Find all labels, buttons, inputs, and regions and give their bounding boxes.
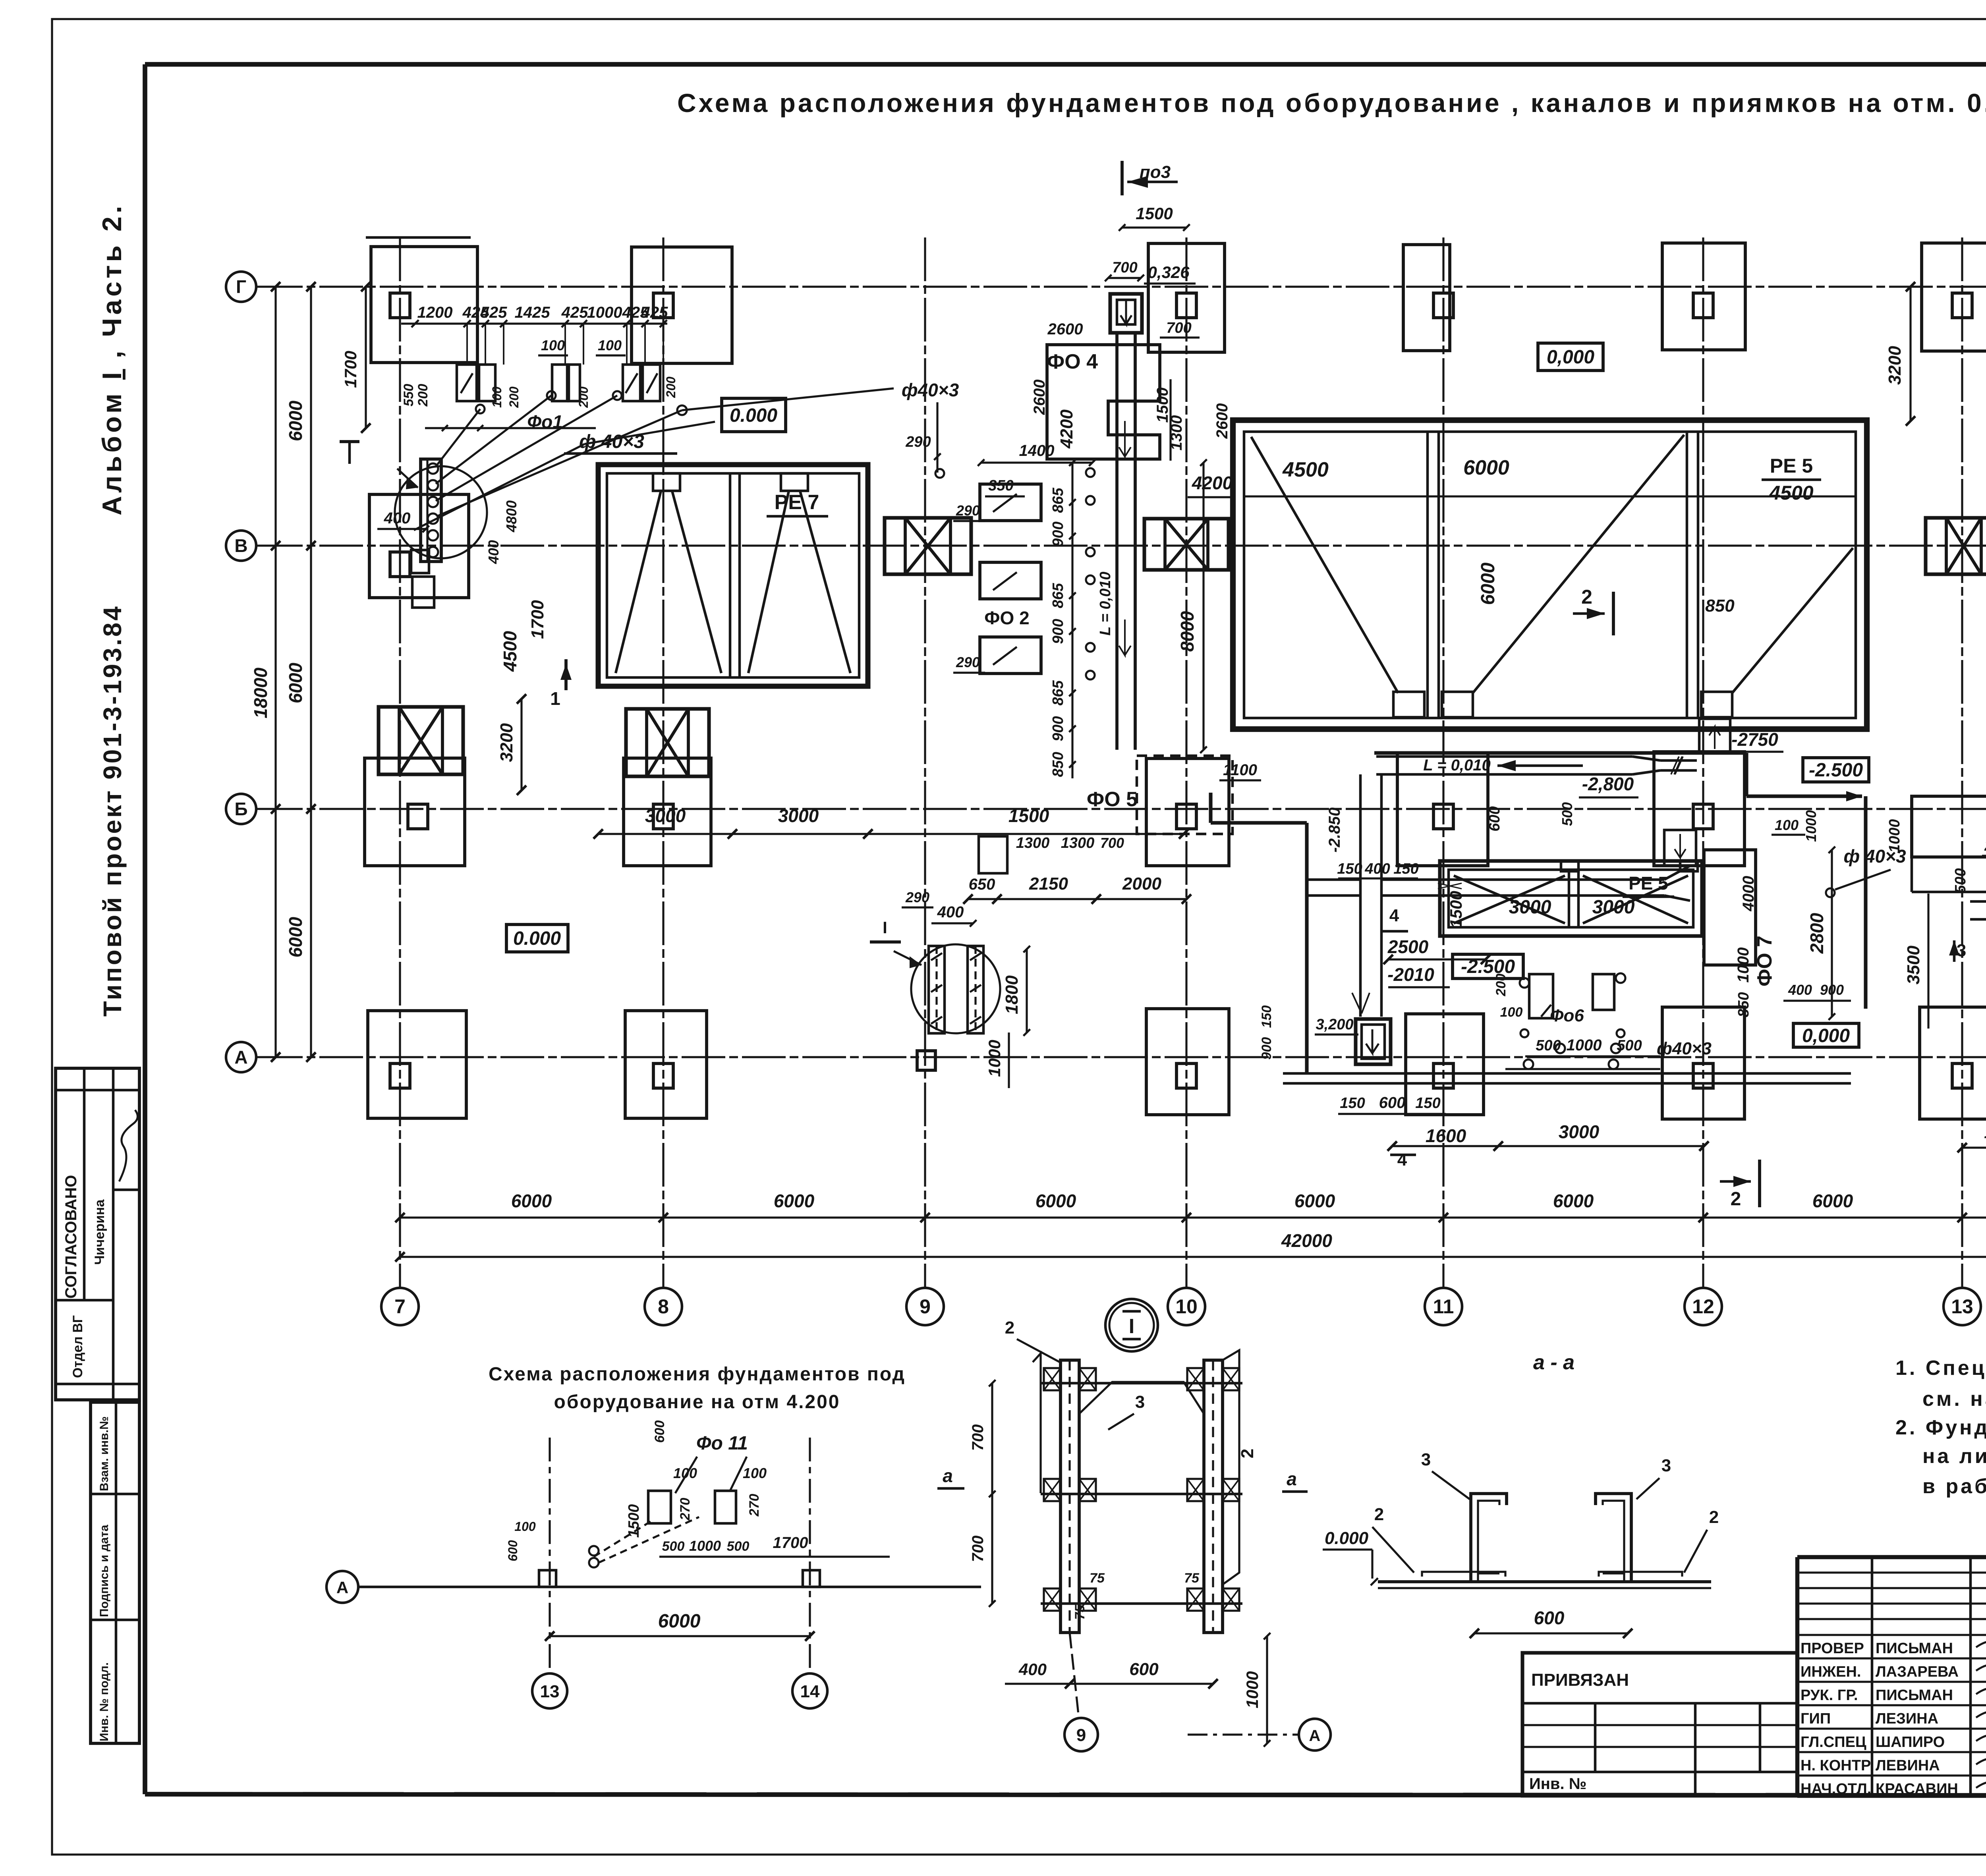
svg-text:0,326: 0,326 <box>1148 263 1190 282</box>
svg-text:I: I <box>1129 1315 1134 1338</box>
svg-text:2500: 2500 <box>1387 936 1429 957</box>
svg-text:6000: 6000 <box>658 1611 701 1632</box>
svg-text:1500: 1500 <box>1008 805 1049 826</box>
a-a dim 600 <box>1474 1632 1628 1634</box>
pit bottom double line <box>1283 1072 1851 1075</box>
svg-text:4200: 4200 <box>1057 409 1076 449</box>
column footprint Б11 <box>1397 753 1488 866</box>
detail bolts <box>589 1546 599 1556</box>
svg-text:900: 900 <box>1050 521 1066 546</box>
svg-text:270: 270 <box>678 1498 693 1521</box>
svg-text:L = 0,010: L = 0,010 <box>1097 572 1114 636</box>
svg-text:ПИСЬМАН: ПИСЬМАН <box>1876 1640 1953 1657</box>
svg-text:270: 270 <box>747 1494 762 1517</box>
svg-text:А: А <box>336 1578 348 1597</box>
svg-text:700: 700 <box>1112 259 1137 276</box>
svg-text:100: 100 <box>673 1465 697 1481</box>
svg-text:75: 75 <box>1184 1571 1200 1586</box>
svg-text:3: 3 <box>1957 941 1966 960</box>
svg-text:150: 150 <box>1259 1006 1274 1028</box>
column footprint Г8 <box>632 247 732 363</box>
svg-text:2: 2 <box>1374 1505 1384 1524</box>
grid line 11 <box>1442 237 1444 1287</box>
dim row 1200-425 cluster <box>401 322 667 324</box>
dim 1400 mid <box>981 461 1092 463</box>
inner frame left <box>143 64 147 1794</box>
svg-text:1000: 1000 <box>689 1538 721 1554</box>
svg-text:0.000: 0.000 <box>513 928 561 949</box>
section bubble 9 <box>1064 1718 1098 1751</box>
Фо5 dashed box <box>1137 756 1233 834</box>
svg-text:500: 500 <box>662 1539 685 1554</box>
grid line 9 <box>924 237 926 1287</box>
svg-text:100: 100 <box>598 337 622 353</box>
svg-text:СОГЛАСОВАНО: СОГЛАСОВАНО <box>62 1175 80 1299</box>
svg-text:Фо6: Фо6 <box>1550 1006 1584 1025</box>
Фо6 pedestal a <box>1529 974 1553 1018</box>
svg-text:Чичерина: Чичерина <box>92 1199 107 1265</box>
dim 3000 3000 1500 under РЕ7 <box>598 833 1184 835</box>
svg-text:1500: 1500 <box>626 1504 642 1538</box>
svg-text:РЕ 5: РЕ 5 <box>1770 455 1813 477</box>
svg-text:100: 100 <box>514 1519 536 1534</box>
svg-text:Альбом I , Часть 2.: Альбом I , Часть 2. <box>97 203 127 515</box>
sump box <box>1356 1019 1391 1064</box>
svg-text:900: 900 <box>1259 1037 1274 1060</box>
detail circle bars <box>911 944 1000 1033</box>
svg-text:500: 500 <box>1559 802 1575 826</box>
svg-text:РУК. ГР.: РУК. ГР. <box>1801 1687 1858 1704</box>
svg-text:3: 3 <box>1135 1392 1145 1412</box>
svg-text:7: 7 <box>394 1295 406 1318</box>
detail bubble 14 <box>792 1673 827 1708</box>
svg-text:3000: 3000 <box>778 805 819 826</box>
svg-text:ЛАЗАРЕВА: ЛАЗАРЕВА <box>1876 1664 1959 1680</box>
svg-text:850: 850 <box>1735 992 1752 1017</box>
svg-text:100: 100 <box>541 337 565 353</box>
svg-text:290: 290 <box>956 654 980 670</box>
section columns <box>1061 1360 1079 1633</box>
grid line В <box>259 544 1986 546</box>
svg-text:1700: 1700 <box>341 351 360 388</box>
svg-text:4500: 4500 <box>500 631 520 672</box>
svg-text:Схема расположения фундамен: Схема расположения фундаментов под обору… <box>677 88 1986 118</box>
channel sump connector <box>1307 878 1360 881</box>
svg-text:3000: 3000 <box>1592 897 1635 918</box>
pit wall top step <box>1211 821 1307 824</box>
svg-text:0,000: 0,000 <box>1547 347 1594 368</box>
svg-text:2600: 2600 <box>1031 380 1048 415</box>
level box 0.000 c <box>506 924 568 952</box>
svg-text:1700: 1700 <box>528 600 547 639</box>
svg-text:850: 850 <box>1705 596 1735 616</box>
svg-text:В: В <box>234 535 247 556</box>
pit top boundary <box>1374 751 1746 755</box>
svg-text:ф 40×3: ф 40×3 <box>579 431 644 452</box>
column footprint А7 <box>368 1011 466 1118</box>
svg-text:Н. КОНТР: Н. КОНТР <box>1801 1757 1871 1774</box>
section dim 400 600 <box>1005 1683 1213 1685</box>
svg-text:700: 700 <box>1166 320 1191 336</box>
svg-text:6000: 6000 <box>1553 1191 1594 1211</box>
detail 4.200 axis <box>429 1586 981 1588</box>
detail bubble A <box>326 1571 358 1603</box>
pit wall left vertical <box>1305 823 1308 1072</box>
svg-text:ф40×3: ф40×3 <box>1657 1039 1712 1058</box>
dim 1500 top <box>1122 226 1186 228</box>
svg-text:290: 290 <box>905 889 929 905</box>
inner frame top <box>145 62 1986 67</box>
svg-text:Отдел ВГ: Отдел ВГ <box>70 1315 85 1378</box>
svg-text:600: 600 <box>506 1540 520 1561</box>
svg-text:425: 425 <box>480 304 507 321</box>
svg-text:оборудование на отм 4.200: оборудование на отм 4.200 <box>554 1392 840 1413</box>
a-a channels <box>1378 1580 1711 1583</box>
column footprint Б8 <box>624 758 711 866</box>
grid bubble 12 <box>1685 1288 1722 1325</box>
svg-text:КРАСАВИН: КРАСАВИН <box>1876 1781 1958 1797</box>
svg-text:ГИП: ГИП <box>1801 1710 1831 1727</box>
svg-text:3: 3 <box>1661 1456 1671 1475</box>
svg-text:865: 865 <box>1050 583 1066 608</box>
svg-text:10: 10 <box>1175 1295 1198 1318</box>
grid line 12 <box>1702 237 1704 1287</box>
dim row 1820 860 700 1340 1290 <box>1962 1146 1986 1148</box>
svg-text:1300: 1300 <box>1061 835 1095 851</box>
grid line Б <box>259 808 1986 810</box>
svg-text:ГЛ.СПЕЦ: ГЛ.СПЕЦ <box>1801 1734 1866 1751</box>
column footprint Б7 <box>365 758 465 866</box>
svg-text:700: 700 <box>969 1536 987 1562</box>
svg-text:12: 12 <box>1692 1295 1714 1318</box>
svg-text:200: 200 <box>576 386 591 408</box>
svg-text:РЕ 7: РЕ 7 <box>775 491 819 514</box>
svg-text:100: 100 <box>743 1465 767 1481</box>
section mark I leader <box>397 469 418 488</box>
svg-text:ПРОВЕР: ПРОВЕР <box>1801 1640 1864 1657</box>
svg-text:200: 200 <box>1493 974 1509 997</box>
bolt row y2680 <box>1524 1060 1533 1069</box>
title block ПРИВЯЗАН <box>1522 1653 1797 1796</box>
grid bubble В <box>226 531 256 561</box>
title block signatures <box>1976 1639 1986 1648</box>
Фо6 pedestal b <box>1593 974 1614 1010</box>
grid line 13 <box>1961 237 1963 1287</box>
grid bubble 13 <box>1943 1288 1981 1325</box>
svg-text:см. на листе КЖ-14: см. на листе КЖ-14 <box>1922 1388 1986 1411</box>
svg-text:9: 9 <box>920 1295 931 1318</box>
pit right wall <box>1864 796 1867 1009</box>
svg-text:400: 400 <box>384 510 411 527</box>
channel under tank <box>1376 755 1632 758</box>
svg-text:6000: 6000 <box>285 662 306 703</box>
svg-text:6000: 6000 <box>1812 1191 1853 1211</box>
svg-text:1800: 1800 <box>1002 975 1022 1014</box>
big tank body <box>1233 420 1867 729</box>
svg-text:500: 500 <box>1536 1037 1561 1054</box>
dim 3200 right <box>1909 287 1911 421</box>
svg-text:400: 400 <box>937 903 964 921</box>
svg-text:500: 500 <box>1952 868 1969 893</box>
small pads below circle <box>411 550 429 573</box>
grid bubble 11 <box>1425 1288 1462 1325</box>
svg-text:1400: 1400 <box>1019 442 1055 459</box>
svg-text:ЛЕЗИНА: ЛЕЗИНА <box>1876 1710 1938 1727</box>
channel vertical sump <box>1359 774 1362 1017</box>
svg-text:3000: 3000 <box>645 805 686 826</box>
svg-text:700: 700 <box>1100 835 1124 851</box>
svg-text:1300: 1300 <box>1016 835 1050 851</box>
svg-text:Б: Б <box>234 799 247 819</box>
svg-text:-2,800: -2,800 <box>1582 774 1634 794</box>
svg-text:4: 4 <box>1397 1150 1407 1170</box>
svg-text:42000: 42000 <box>1281 1230 1332 1251</box>
column footprint А11 <box>1406 1014 1484 1115</box>
section bubble A <box>1299 1719 1331 1751</box>
svg-text:1000: 1000 <box>1243 1671 1262 1708</box>
svg-text:6000: 6000 <box>1036 1191 1076 1211</box>
sump approach arrows <box>1352 993 1370 1013</box>
column footprint Б12 <box>1654 752 1745 866</box>
svg-text:ф40×3: ф40×3 <box>902 380 959 400</box>
svg-text:8000: 8000 <box>1177 611 1198 652</box>
svg-text:100: 100 <box>1500 1005 1523 1020</box>
svg-text:1425: 1425 <box>515 304 551 321</box>
svg-text:700: 700 <box>969 1424 987 1451</box>
svg-text:НАЧ.ОТЛ.: НАЧ.ОТЛ. <box>1801 1781 1871 1797</box>
dims 1500 1000 500 row <box>1525 1055 1660 1057</box>
svg-text:2150: 2150 <box>1029 874 1068 894</box>
svg-text:1: 1 <box>550 688 560 709</box>
svg-text:ФО 4: ФО 4 <box>1047 350 1098 373</box>
svg-text:13: 13 <box>1951 1295 1973 1318</box>
column footprint Б10 <box>1146 759 1229 866</box>
svg-text:-2750: -2750 <box>1731 729 1778 750</box>
tank РЕ7 body <box>598 465 868 686</box>
svg-text:1000: 1000 <box>587 304 622 321</box>
dim 1600 3000 bottom <box>1392 1145 1704 1147</box>
svg-text:75: 75 <box>1072 1604 1088 1620</box>
hline above footprint G7 <box>366 236 471 239</box>
svg-text:ИНЖЕН.: ИНЖЕН. <box>1801 1664 1861 1680</box>
svg-text:200: 200 <box>415 384 431 407</box>
grid line Г <box>259 286 1986 288</box>
svg-text:425: 425 <box>641 304 668 321</box>
РЕ5 pit <box>1440 861 1702 936</box>
svg-text:А: А <box>234 1047 247 1067</box>
svg-text:200: 200 <box>507 386 521 408</box>
svg-text:6000: 6000 <box>285 917 306 957</box>
column footprint А8 <box>625 1011 707 1118</box>
svg-text:900: 900 <box>1050 716 1066 741</box>
hatched pad 7mid <box>379 707 463 774</box>
svg-text:1500: 1500 <box>1154 388 1171 423</box>
svg-text:-2.500: -2.500 <box>1809 760 1863 781</box>
column footprint Г12 <box>1662 243 1745 350</box>
svg-text:600: 600 <box>1486 806 1503 831</box>
svg-text:ФО 5: ФО 5 <box>1087 788 1138 811</box>
svg-text:400: 400 <box>1364 861 1390 877</box>
svg-text:1000: 1000 <box>985 1040 1004 1077</box>
grid line 8 <box>662 237 664 1287</box>
dim 700 inlet <box>1108 277 1141 279</box>
svg-text:0,000: 0,000 <box>1802 1025 1850 1046</box>
platform Фо9-Фо10 <box>1912 796 1986 857</box>
svg-text:150: 150 <box>1340 1095 1365 1112</box>
svg-text:9: 9 <box>1076 1725 1086 1745</box>
svg-text:1100: 1100 <box>1223 761 1257 779</box>
svg-text:-2010: -2010 <box>1387 964 1434 985</box>
detail dim 6000 <box>550 1635 810 1637</box>
svg-text:I: I <box>883 918 887 937</box>
svg-text:100: 100 <box>1775 817 1799 833</box>
svg-text:0.000: 0.000 <box>1325 1529 1369 1548</box>
svg-text:2000: 2000 <box>1122 874 1161 894</box>
svg-text:650: 650 <box>969 876 995 893</box>
svg-text:ШАПИРО: ШАПИРО <box>1876 1734 1945 1751</box>
svg-text:2: 2 <box>1238 1449 1257 1458</box>
svg-text:Схема расположения фундаментов: Схема расположения фундаментов под <box>489 1364 906 1385</box>
column square А9 <box>917 1051 935 1070</box>
svg-text:350: 350 <box>988 477 1013 494</box>
svg-text:200: 200 <box>664 376 678 398</box>
detail axis squares <box>539 1570 556 1587</box>
left dimension lines 18000/6000 <box>274 287 276 1057</box>
svg-text:Взам. инв.№: Взам. инв.№ <box>98 1416 111 1491</box>
svg-text:425: 425 <box>561 304 588 321</box>
section cross plates <box>1041 1382 1242 1385</box>
svg-text:1000: 1000 <box>1803 810 1819 842</box>
svg-text:100: 100 <box>490 386 504 408</box>
dim column 865/900 <box>1071 463 1073 778</box>
svg-text:0.000: 0.000 <box>730 405 777 426</box>
svg-text:3000: 3000 <box>1509 897 1551 918</box>
svg-text:a: a <box>943 1465 953 1486</box>
svg-text:2. Фундаменты под оборудован: 2. Фундаменты под оборудование разработа… <box>1895 1416 1986 1439</box>
svg-text:600: 600 <box>1379 1094 1406 1112</box>
svg-text:1. Спецификацию фундаментов: 1. Спецификацию фундаментов под оборудов… <box>1895 1357 1986 1380</box>
svg-text:1200: 1200 <box>417 304 453 321</box>
svg-text:400: 400 <box>1018 1660 1047 1679</box>
svg-text:3200: 3200 <box>497 723 516 762</box>
column footprint А12 <box>1662 1007 1745 1119</box>
level box -2.500 a <box>1803 758 1869 782</box>
channel upturn <box>1699 719 1730 751</box>
column footprint Г7 <box>371 247 477 363</box>
channel vertical <box>1115 333 1119 750</box>
svg-text:6000: 6000 <box>511 1191 552 1211</box>
svg-text:a - a: a - a <box>1533 1351 1575 1374</box>
column footprint А10 <box>1146 1009 1229 1115</box>
level box 0,000 b <box>1538 343 1603 371</box>
grid line 7 <box>399 237 401 1287</box>
svg-text:18000: 18000 <box>250 668 271 718</box>
svg-text:1820: 1820 <box>1984 1123 1986 1142</box>
Фо7 rect <box>1704 850 1756 965</box>
svg-text:500: 500 <box>1617 1037 1642 1054</box>
stamp box СОГЛАСОВАНО <box>56 1068 139 1400</box>
grid line А <box>259 1056 1986 1058</box>
svg-text:290: 290 <box>956 502 980 519</box>
detail pads <box>648 1491 671 1523</box>
svg-text:в рабочем положении.: в рабочем положении. <box>1922 1475 1986 1498</box>
svg-text:2: 2 <box>1709 1507 1719 1527</box>
dim row 650 2150 2000 <box>968 898 1186 900</box>
hatched pad В9 <box>885 518 971 574</box>
Фо4 outline <box>1047 345 1160 459</box>
leader to detail circle <box>894 951 922 965</box>
grid line 10 <box>1185 237 1187 1287</box>
svg-text:L = 0,010: L = 0,010 <box>1423 757 1490 774</box>
svg-text:на листе КЖ-1Б . Их изображ: на листе КЖ-1Б . Их изображение дано <box>1922 1445 1986 1468</box>
svg-text:Инв. №: Инв. № <box>1529 1775 1586 1793</box>
svg-text:4500: 4500 <box>1769 482 1813 504</box>
column footprint Г11 <box>1403 245 1450 351</box>
dim line under pads <box>425 427 596 429</box>
Фо5 pad <box>979 836 1007 873</box>
svg-text:Инв. № подл.: Инв. № подл. <box>98 1662 111 1741</box>
dim 2800 col13 <box>1986 546 1986 659</box>
svg-text:2600: 2600 <box>1047 320 1083 338</box>
grid bubble Б <box>226 794 256 824</box>
svg-text:Фо 11: Фо 11 <box>696 1433 748 1454</box>
section plate 3 outline <box>1079 1382 1204 1414</box>
svg-text:6000: 6000 <box>774 1191 815 1211</box>
detail 4.200 col14 line <box>809 1438 811 1672</box>
svg-text:А: А <box>1309 1727 1321 1745</box>
svg-text:4200: 4200 <box>1192 473 1233 493</box>
bottom dimension lines 6000x7 / 42000 <box>400 1216 1986 1218</box>
svg-text:290: 290 <box>1984 838 1986 854</box>
hatched pad В10 <box>1144 519 1229 570</box>
svg-text:1700: 1700 <box>773 1534 808 1552</box>
Фо2 bolts <box>1086 468 1095 477</box>
svg-text:6000: 6000 <box>1478 562 1499 605</box>
по3 mark top <box>1121 161 1124 195</box>
svg-text:150: 150 <box>1337 861 1362 877</box>
hatch mark channel <box>1671 757 1683 774</box>
svg-text:3,200: 3,200 <box>1316 1016 1353 1033</box>
svg-text:400: 400 <box>1788 982 1812 998</box>
level box 0.000 f <box>1376 1162 1398 1165</box>
anchor leaders <box>436 409 480 467</box>
grid bubble 8 <box>645 1288 682 1325</box>
svg-text:Г: Г <box>236 276 246 297</box>
svg-text:13: 13 <box>540 1682 560 1701</box>
svg-text:6000: 6000 <box>1463 456 1509 479</box>
dim 1700 left cluster <box>365 287 367 428</box>
column footprint Г10 <box>1148 243 1225 352</box>
svg-text:2: 2 <box>1581 586 1592 608</box>
svg-text:865: 865 <box>1050 487 1066 513</box>
svg-text:4800: 4800 <box>503 500 520 533</box>
svg-text:6000: 6000 <box>1294 1191 1335 1211</box>
svg-text:600: 600 <box>1534 1608 1565 1628</box>
svg-text:6000: 6000 <box>285 400 306 441</box>
hatched pad В13 <box>1926 518 1986 574</box>
svg-text:ФО 7: ФО 7 <box>1753 936 1776 986</box>
level box 0.000 e <box>1793 1023 1859 1047</box>
svg-text:Подпись и дата: Подпись и дата <box>98 1525 111 1617</box>
svg-text:8: 8 <box>658 1295 669 1318</box>
channel across pit <box>1381 878 1664 881</box>
detail 4.200 col13 line <box>549 1438 551 1672</box>
svg-text:-2.850: -2.850 <box>1326 807 1343 852</box>
svg-text:75: 75 <box>1090 1571 1105 1586</box>
svg-text:a: a <box>1287 1469 1297 1489</box>
svg-text:900: 900 <box>1050 619 1066 644</box>
detail bubble 13 <box>532 1673 567 1708</box>
